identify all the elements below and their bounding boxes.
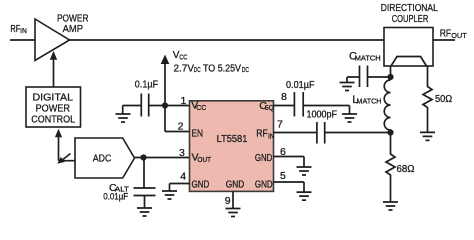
- svg-text:RF: RF: [256, 128, 268, 140]
- svg-text:0.01µF: 0.01µF: [103, 192, 128, 203]
- svg-text:GND: GND: [192, 178, 210, 190]
- svg-text:EN: EN: [192, 127, 204, 139]
- svg-text:2.7V: 2.7V: [174, 63, 195, 75]
- svg-text:5: 5: [280, 170, 286, 182]
- svg-text:0.1µF: 0.1µF: [135, 79, 158, 90]
- svg-text:CONTROL: CONTROL: [31, 114, 75, 126]
- svg-text:4: 4: [180, 170, 186, 182]
- svg-text:IN: IN: [20, 26, 27, 35]
- svg-text:RF: RF: [10, 24, 20, 35]
- svg-text:AMP: AMP: [63, 23, 83, 35]
- svg-text:6: 6: [280, 146, 286, 158]
- svg-text:IN: IN: [268, 133, 275, 140]
- svg-text:GND: GND: [226, 178, 245, 190]
- svg-text:9: 9: [225, 195, 231, 207]
- svg-text:3: 3: [179, 147, 185, 159]
- svg-text:1: 1: [181, 95, 187, 107]
- svg-text:COUPLER: COUPLER: [392, 13, 429, 25]
- svg-text:8: 8: [281, 91, 287, 103]
- svg-text:GND: GND: [255, 178, 273, 190]
- svg-text:7: 7: [277, 119, 283, 131]
- svg-text:DC: DC: [194, 67, 201, 74]
- svg-text:50Ω: 50Ω: [435, 94, 453, 105]
- svg-text:DC: DC: [242, 67, 249, 74]
- svg-text:RF: RF: [440, 27, 452, 39]
- svg-text:MATCH: MATCH: [357, 97, 382, 106]
- svg-text:ADC: ADC: [93, 153, 112, 165]
- svg-text:GND: GND: [255, 152, 273, 164]
- svg-text:0.01µF: 0.01µF: [286, 79, 315, 91]
- svg-text:CC: CC: [196, 105, 206, 112]
- svg-text:MATCH: MATCH: [355, 53, 381, 62]
- svg-text:OUT: OUT: [451, 31, 467, 40]
- svg-text:SQ: SQ: [265, 105, 274, 112]
- svg-text:1000pF: 1000pF: [307, 109, 338, 120]
- svg-text:68Ω: 68Ω: [397, 164, 415, 175]
- svg-text:POWER: POWER: [36, 102, 71, 114]
- svg-text:CC: CC: [179, 55, 187, 62]
- svg-text:OUT: OUT: [198, 157, 212, 164]
- svg-text:TO 5.25V: TO 5.25V: [203, 63, 241, 75]
- svg-text:LT5581: LT5581: [217, 133, 248, 145]
- svg-text:2: 2: [178, 121, 184, 133]
